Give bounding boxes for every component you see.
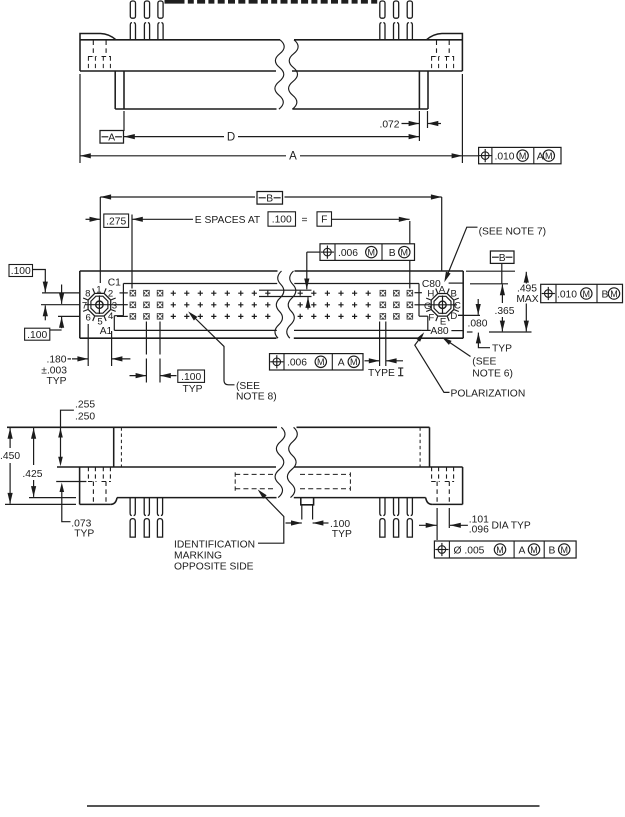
bottom view: center standoff [301, 498, 314, 505]
svg-text:.006: .006 [338, 248, 358, 259]
dimension D [124, 134, 135, 139]
top view: extension line flange step right [427, 111, 429, 128]
svg-text:F: F [321, 215, 327, 226]
svg-text:POLARIZATION: POLARIZATION [451, 388, 526, 399]
datum flag -A- [100, 131, 124, 144]
footer rule [87, 805, 540, 807]
svg-text:H: H [427, 289, 434, 300]
svg-text:C1: C1 [108, 277, 121, 288]
row C tolerance zone up arrow [305, 297, 310, 308]
dimension .100 row C-B box [9, 265, 33, 277]
top view: lower body walls [114, 71, 116, 109]
feature control frame: position .010 M B M (middle view) [541, 284, 623, 302]
polarization key right (positions A-H): radial ticks [426, 289, 459, 322]
svg-text:.006: .006 [287, 358, 307, 369]
svg-text:A: A [289, 151, 297, 163]
svg-text:±.003: ±.003 [41, 365, 67, 376]
svg-text:DIA TYP: DIA TYP [492, 521, 531, 532]
svg-text:M: M [317, 357, 325, 367]
svg-text:M: M [496, 545, 504, 555]
polarization key right (positions A-H): outer octagon [431, 294, 454, 317]
svg-text:B: B [389, 248, 396, 259]
dimension .365 [500, 284, 505, 295]
svg-text:.450: .450 [0, 451, 20, 462]
svg-text:B: B [266, 194, 273, 205]
svg-text:M: M [519, 151, 527, 161]
polarization key left (positions 1-8): centerlines [85, 304, 114, 306]
svg-text:A: A [519, 545, 526, 556]
svg-text:TYPE: TYPE [368, 368, 395, 379]
svg-text:.100: .100 [272, 215, 292, 226]
svg-text:(SEE: (SEE [236, 381, 260, 392]
contact array: cross contacts left half [171, 291, 176, 296]
identification marking zone (hidden) [235, 473, 274, 475]
svg-text:M: M [368, 247, 376, 257]
svg-text:M: M [350, 357, 358, 367]
svg-text:C: C [454, 301, 461, 312]
row C tolerance zone lines [259, 289, 312, 291]
svg-text:TYP: TYP [492, 343, 512, 354]
dimension .080 [476, 304, 481, 315]
svg-text:NOTE 8): NOTE 8) [236, 392, 277, 403]
bottom view: press-fit pins left group [130, 498, 135, 516]
dimension .450 [5, 503, 76, 505]
svg-text:=: = [301, 215, 307, 226]
svg-text:TYP: TYP [182, 384, 202, 395]
feature control frame: position .006 M A M [270, 354, 364, 370]
right side extension lines [466, 270, 515, 272]
svg-text:M: M [401, 247, 409, 257]
svg-text:MARKING: MARKING [174, 550, 222, 561]
svg-text:B: B [549, 545, 556, 556]
polarization key left (positions 1-8): outer octagon [88, 293, 111, 316]
row connector ticks right key [415, 292, 422, 294]
bottom view: press-fit pins right group [380, 498, 385, 516]
dimension row: E SPACES AT .100 = F [132, 217, 143, 222]
polarization key right (positions A-H): centerlines [428, 304, 457, 306]
svg-text:M: M [545, 151, 553, 161]
svg-text:TYP: TYP [46, 376, 66, 387]
row extension lines at left face [42, 292, 80, 294]
middle view: recess edge segments at right end [449, 282, 464, 284]
polarization key right (positions A-H): inner octagon [434, 296, 451, 313]
extension line: contact column 80 [409, 221, 411, 244]
bottom view: break lines [275, 427, 285, 497]
svg-text:.100: .100 [11, 266, 31, 277]
polarization key left (positions 1-8): center hole [96, 301, 103, 308]
bottom view: hidden holes left block [87, 467, 89, 482]
polarization key right (positions A-H): center hole [439, 301, 446, 308]
svg-text:M: M [560, 545, 568, 555]
svg-text:.275: .275 [106, 216, 126, 227]
svg-text:D: D [227, 131, 235, 143]
top view: solder pins upper-left group [130, 1, 135, 18]
dimension .073 TYP [56, 481, 86, 483]
polarization key left (positions 1-8): radial ticks [83, 288, 116, 321]
contact array: cross contacts right half [298, 291, 303, 296]
bottom view: hidden holes right block [431, 467, 433, 482]
svg-text:.072: .072 [379, 119, 399, 130]
top view: break lines [275, 40, 284, 109]
svg-text:.096: .096 [469, 525, 489, 536]
svg-text:M: M [530, 545, 538, 555]
svg-text:B: B [450, 289, 456, 300]
datum flag -B- right [490, 251, 514, 263]
svg-text:MAX: MAX [516, 294, 538, 305]
contact width extension lines for .006 A [379, 322, 381, 367]
svg-text:E: E [440, 317, 446, 328]
svg-text:B: B [499, 253, 506, 264]
svg-text:D: D [450, 311, 457, 322]
svg-text:.250: .250 [75, 411, 95, 422]
top view: body bottom edge [115, 108, 276, 110]
dimension .100 row B-A box [25, 328, 50, 340]
datum flag -B- (between polarization keys) [257, 192, 283, 205]
bottom view: hidden walls [120, 427, 122, 467]
svg-text:.495: .495 [517, 284, 537, 295]
bottom view: flange top edge [57, 466, 276, 468]
svg-text:.100: .100 [181, 372, 201, 383]
svg-text:NOTE 6): NOTE 6) [472, 368, 513, 379]
svg-text:E SPACES AT: E SPACES AT [195, 215, 261, 226]
svg-text:.100: .100 [27, 330, 47, 341]
contact array: square press-fit contacts right [380, 290, 387, 297]
top view: connector body outline [80, 34, 116, 72]
top view: extension line datum A left [79, 74, 81, 163]
dimension .180 +-.003 TYP [87, 324, 89, 366]
feature control frame: position dia .005 M A M B M [434, 541, 576, 558]
svg-text:IDENTIFICATION: IDENTIFICATION [174, 539, 255, 550]
top view: hidden mounting holes right block [436, 41, 438, 57]
svg-text:2: 2 [108, 289, 113, 300]
dimension .100 row C-B leader [33, 270, 46, 284]
svg-text:OPPOSITE SIDE: OPPOSITE SIDE [174, 561, 254, 572]
svg-text:A: A [439, 284, 446, 295]
svg-text:.010: .010 [557, 289, 577, 300]
svg-text:8: 8 [85, 289, 90, 300]
middle view: insulator face outline [80, 270, 278, 272]
svg-text:1: 1 [96, 284, 101, 295]
svg-text:F: F [428, 312, 434, 323]
middle view: break lines [275, 271, 284, 338]
leader from .006 B frame to row C [307, 251, 320, 253]
svg-text:A1: A1 [100, 326, 113, 337]
dimension .100 TYP standoff [301, 506, 303, 520]
polarization key left (positions 1-8): inner octagon [91, 296, 108, 313]
top view: hidden mounting holes left block [92, 41, 94, 57]
feature control frame: position .006 M B M [320, 244, 415, 261]
extension line: right polarization center [441, 197, 443, 271]
svg-text:TYP: TYP [332, 529, 352, 540]
middle view: contact recess outline [123, 283, 277, 285]
dimension -B- datum line [100, 194, 111, 199]
svg-text:7: 7 [82, 301, 87, 312]
top view: extension line body right wall [418, 111, 420, 141]
dimension .495 MAX [524, 272, 529, 283]
svg-text:(SEE: (SEE [472, 356, 496, 367]
svg-text:.180: .180 [46, 355, 66, 366]
svg-text:5: 5 [97, 317, 102, 328]
extension line: contact column 1 [131, 215, 133, 289]
svg-text:.080: .080 [467, 319, 487, 330]
svg-text:4: 4 [108, 311, 114, 322]
svg-text:M: M [610, 289, 618, 299]
top view: extension line right end [461, 74, 463, 163]
contact array: square press-fit contacts left [130, 290, 137, 297]
dimension .275 leader arrow [90, 217, 101, 222]
svg-text:Ø .005: Ø .005 [454, 545, 485, 556]
svg-text:M: M [583, 289, 591, 299]
svg-text:B: B [602, 289, 609, 300]
row connector ticks left key [120, 292, 128, 294]
dimension .100 TYP column pitch [145, 322, 147, 355]
arrows for .006 A frame [369, 358, 380, 363]
figure header artifact: cropped text bar [165, 0, 378, 4]
svg-text:TYP: TYP [74, 528, 94, 539]
svg-text:6: 6 [86, 312, 91, 323]
svg-text:A: A [338, 358, 345, 369]
svg-text:.010: .010 [494, 151, 514, 162]
top view: solder pins upper-right group [380, 1, 385, 18]
bottom view: upper body outline [7, 426, 277, 428]
svg-text:.255: .255 [75, 400, 95, 411]
dimension .275 box [104, 214, 129, 227]
top view: extension line body left wall [123, 111, 125, 131]
svg-text:(SEE NOTE 7): (SEE NOTE 7) [479, 226, 547, 237]
svg-text:G: G [424, 301, 431, 312]
bottom view: flange outline [79, 467, 81, 504]
dimension .101/.096 DIA TYP [436, 508, 438, 540]
extension line: left polarization center [99, 197, 101, 283]
svg-text:.425: .425 [22, 469, 42, 480]
svg-text:3: 3 [112, 301, 117, 312]
svg-text:A: A [108, 132, 115, 143]
dimension A [80, 153, 91, 158]
dimension .425 [29, 497, 76, 499]
feature control frame: position .010 M A M [479, 147, 561, 163]
svg-text:.365: .365 [494, 306, 514, 317]
